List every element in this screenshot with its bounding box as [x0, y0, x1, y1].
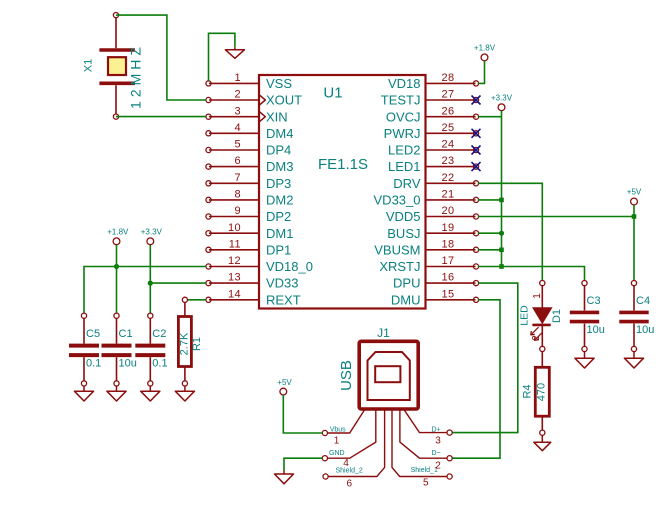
svg-text:R1: R1	[191, 337, 203, 351]
svg-text:+3.3V: +3.3V	[141, 228, 163, 237]
svg-text:9: 9	[234, 205, 241, 217]
J1 pin 3 D+	[404, 409, 452, 446]
J1 pin 4 GND	[322, 409, 376, 469]
wire +5V to Vbus	[283, 395, 322, 433]
U1 pin 9 DP2	[206, 205, 291, 224]
svg-text:27: 27	[442, 89, 455, 101]
svg-text:DP2: DP2	[266, 209, 291, 224]
svg-text:24: 24	[442, 139, 455, 151]
svg-text:J1: J1	[377, 326, 390, 340]
svg-text:21: 21	[442, 189, 455, 201]
svg-text:10u: 10u	[636, 324, 654, 336]
svg-text:VD33: VD33	[266, 276, 299, 291]
svg-text:+3.3V: +3.3V	[491, 94, 513, 103]
svg-text:DPU: DPU	[393, 276, 420, 291]
U1 pin 25 PWRJ	[384, 122, 479, 141]
svg-text:D+: D+	[432, 426, 441, 433]
J1 pin 2 D-	[400, 409, 452, 471]
svg-text:+1.8V: +1.8V	[474, 44, 496, 53]
svg-text:X1: X1	[83, 59, 95, 72]
svg-text:LED1: LED1	[388, 159, 421, 174]
svg-text:DM3: DM3	[266, 159, 293, 174]
svg-text:FE1.1S: FE1.1S	[318, 156, 368, 173]
svg-text:10u: 10u	[119, 358, 137, 370]
svg-text:12: 12	[228, 255, 241, 267]
svg-text:6: 6	[234, 155, 241, 167]
svg-text:28: 28	[442, 72, 455, 84]
U1 pin 3 XIN	[206, 105, 288, 124]
power symbol +3.3V	[147, 238, 154, 245]
ground under R1	[175, 386, 194, 401]
svg-text:25: 25	[442, 122, 455, 134]
U1 pin 10 DM1	[206, 222, 294, 241]
svg-text:DP4: DP4	[266, 143, 291, 158]
wire pin 18 to rail	[479, 249, 502, 251]
svg-text:C5: C5	[86, 328, 100, 340]
svg-text:C4: C4	[636, 295, 650, 307]
U1 pin 11 DP1	[206, 238, 291, 257]
wire DMU pin 15 to USB D-	[452, 300, 500, 458]
ground under R4	[534, 435, 551, 451]
svg-text:VD33_0: VD33_0	[374, 193, 421, 208]
wire pin 13 row	[150, 282, 206, 284]
svg-text:Shield_2: Shield_2	[336, 468, 363, 475]
wire +1.8V junction down to C1	[116, 267, 118, 314]
wire crystal bottom to XIN	[116, 116, 206, 118]
svg-text:VDD5: VDD5	[386, 209, 421, 224]
no-connect X on pin 24	[472, 146, 481, 155]
no-connect X on pin 25	[472, 129, 481, 138]
svg-text:LED2: LED2	[388, 143, 421, 158]
U1 pin 26 OVCJ	[386, 105, 479, 124]
svg-text:0.1: 0.1	[152, 358, 167, 370]
svg-text:470: 470	[536, 383, 548, 401]
svg-text:11: 11	[229, 238, 241, 250]
U1 pin 20 VDD5	[386, 205, 479, 224]
wire +1.8V to pin 28	[479, 61, 485, 84]
U1 pin 24 LED2	[388, 139, 479, 158]
svg-text:7: 7	[234, 172, 241, 184]
svg-text:Shield_1: Shield_1	[411, 467, 438, 474]
power symbol +1.8V	[113, 238, 120, 245]
U1 pin 12 VD18_0	[206, 255, 313, 274]
svg-text:VBUSM: VBUSM	[374, 242, 420, 257]
U1 pin 15 DMU	[391, 288, 479, 307]
svg-text:1: 1	[532, 293, 543, 299]
IC U1 FE1.1S body	[259, 75, 426, 309]
svg-text:VD18_0: VD18_0	[266, 259, 313, 274]
svg-text:U1: U1	[323, 85, 342, 102]
wire +3.3V down to pin 26 and rail to pin 17 row	[501, 111, 503, 267]
wire +3.3V down to C2	[149, 283, 151, 313]
svg-text:REXT: REXT	[266, 292, 301, 307]
svg-text:Vbus: Vbus	[330, 426, 346, 433]
U1 pin 28 VD18	[388, 72, 479, 91]
svg-text:6: 6	[347, 479, 353, 490]
power symbol +1.8V	[481, 54, 488, 61]
svg-text:2.7K: 2.7K	[179, 332, 191, 355]
power symbol +3.3V	[498, 104, 505, 111]
svg-text:15: 15	[442, 288, 455, 300]
capacitor C3	[570, 281, 599, 352]
resistor R4 470	[535, 351, 549, 435]
svg-text:3: 3	[435, 435, 441, 446]
svg-text:DP1: DP1	[266, 242, 291, 257]
J1 pin 6 Shield_2	[323, 409, 385, 489]
ground under C4	[624, 352, 643, 369]
svg-text:C2: C2	[152, 328, 166, 340]
power symbol +5V	[280, 388, 287, 395]
svg-text:2: 2	[234, 89, 241, 101]
junction +1.8V net	[114, 264, 119, 269]
U1 pin 8 DM2	[206, 189, 294, 208]
U1 pin 18 VBUSM	[374, 238, 478, 257]
svg-text:XIN: XIN	[266, 109, 288, 124]
svg-text:17: 17	[442, 255, 455, 267]
svg-text:DP3: DP3	[266, 176, 291, 191]
svg-text:XRSTJ: XRSTJ	[379, 259, 420, 274]
U1 pin 16 DPU	[393, 272, 479, 291]
wire pin 21 to rail	[479, 199, 502, 201]
U1 pin 14 REXT	[206, 288, 301, 307]
svg-text:22: 22	[442, 172, 455, 184]
wire pin 26 to +3.3V rail	[479, 116, 502, 118]
J1 pin 1 Vbus	[322, 409, 365, 446]
svg-text:4: 4	[234, 122, 241, 134]
svg-text:LED: LED	[519, 305, 531, 326]
svg-text:GND: GND	[329, 450, 345, 457]
svg-text:PWRJ: PWRJ	[384, 126, 421, 141]
svg-text:19: 19	[442, 222, 455, 234]
svg-text:1: 1	[334, 435, 340, 446]
svg-text:DM2: DM2	[266, 193, 293, 208]
svg-text:5: 5	[423, 477, 429, 488]
svg-text:USB: USB	[338, 360, 355, 391]
U1 pin 2 XOUT	[206, 89, 302, 108]
svg-text:0.1: 0.1	[86, 358, 101, 370]
U1 pin 5 DP4	[206, 139, 291, 158]
svg-text:DM1: DM1	[266, 226, 293, 241]
svg-text:10u: 10u	[587, 324, 605, 336]
svg-text:R4: R4	[522, 384, 534, 398]
U1 pin 19 BUSJ	[387, 222, 478, 241]
ground under USB GND	[275, 471, 294, 484]
ground under C3	[575, 352, 594, 369]
junction +5V / pin 20	[632, 214, 637, 219]
svg-text:VSS: VSS	[266, 76, 292, 91]
U1 pin 21 VD33_0	[374, 189, 479, 208]
wire DRV pin 22 to LED	[479, 183, 543, 280]
svg-text:2: 2	[435, 461, 441, 472]
wire crystal top to XOUT	[116, 15, 206, 100]
U1 pin 23 LED1	[388, 155, 479, 174]
wire VSS pin1 to ground	[209, 33, 235, 81]
svg-text:20: 20	[442, 205, 455, 217]
wire +5V down to C4	[633, 205, 635, 281]
svg-text:XOUT: XOUT	[266, 93, 302, 108]
J1 pin 5 Shield_1	[392, 409, 452, 488]
ground near crystal	[225, 47, 244, 58]
ground under C5	[74, 386, 93, 401]
capacitor C1	[102, 313, 132, 386]
no-connect X on pin 23	[472, 162, 481, 171]
svg-text:12MHZ: 12MHZ	[128, 43, 144, 109]
wire +3.3V stem to pin 13 row	[149, 245, 151, 283]
wire DPU pin 16 to USB D+	[452, 283, 518, 433]
svg-text:10: 10	[228, 222, 241, 234]
U1 pin 7 DP3	[206, 172, 291, 191]
LED D1	[532, 281, 551, 352]
U1 pin 4 DM4	[206, 122, 294, 141]
ground under C2	[141, 386, 160, 401]
svg-text:VD18: VD18	[388, 76, 421, 91]
no-connect X on pin 27	[472, 96, 481, 105]
wire GND pin to ground	[284, 458, 322, 470]
U1 pin 6 DM3	[206, 155, 294, 174]
svg-text:14: 14	[228, 288, 241, 300]
U1 pin 27 TESTJ	[381, 89, 479, 108]
svg-text:BUSJ: BUSJ	[387, 226, 420, 241]
svg-text:TESTJ: TESTJ	[381, 93, 421, 108]
wire pin 17 XRSTJ to C3	[479, 267, 585, 281]
capacitor C2	[135, 313, 165, 386]
svg-text:DMU: DMU	[391, 292, 421, 307]
wire VDD5 pin 20 to +5V rail	[479, 216, 635, 218]
svg-text:8: 8	[234, 189, 241, 201]
svg-text:OVCJ: OVCJ	[386, 109, 421, 124]
svg-text:D−: D−	[432, 450, 441, 457]
svg-text:18: 18	[442, 238, 455, 250]
crystal X1 12MHZ	[99, 13, 134, 120]
svg-text:16: 16	[442, 272, 455, 284]
svg-text:1: 1	[234, 72, 241, 84]
junction pin 21	[499, 198, 504, 203]
LED emission arrows	[531, 327, 542, 340]
U1 pin 17 XRSTJ	[379, 255, 478, 274]
svg-text:C3: C3	[587, 295, 601, 307]
svg-text:+5V: +5V	[627, 188, 642, 197]
power symbol +5V	[631, 198, 638, 205]
junction +3.3V net	[148, 281, 153, 286]
svg-text:C1: C1	[119, 328, 133, 340]
svg-text:+5V: +5V	[277, 378, 292, 387]
wire pin 12 row to caps	[84, 267, 206, 314]
junction pin 17	[499, 264, 504, 269]
svg-text:D1: D1	[551, 309, 563, 323]
capacitor C4	[619, 281, 648, 352]
U1 pin 22 DRV	[393, 172, 478, 191]
svg-text:3: 3	[234, 105, 241, 117]
resistor R1 2.7K	[178, 297, 191, 386]
svg-text:5: 5	[234, 139, 241, 151]
ground under C1	[107, 386, 126, 401]
U1 pin 13 VD33	[206, 272, 299, 291]
junction pin 18	[499, 248, 504, 253]
svg-text:+1.8V: +1.8V	[107, 228, 129, 237]
svg-text:13: 13	[228, 272, 241, 284]
svg-text:DM4: DM4	[266, 126, 293, 141]
junction pin 19	[499, 231, 504, 236]
wire +1.8V stem	[116, 245, 118, 267]
svg-text:26: 26	[442, 105, 455, 117]
U1 pin 1 VSS	[206, 72, 292, 91]
svg-text:DRV: DRV	[393, 176, 421, 191]
capacitor C5	[69, 313, 99, 386]
svg-text:23: 23	[442, 155, 455, 167]
wire pin 19 to rail	[479, 232, 502, 234]
connector J1 USB-B body	[359, 341, 418, 409]
wire pin 14 to R1	[187, 299, 206, 301]
